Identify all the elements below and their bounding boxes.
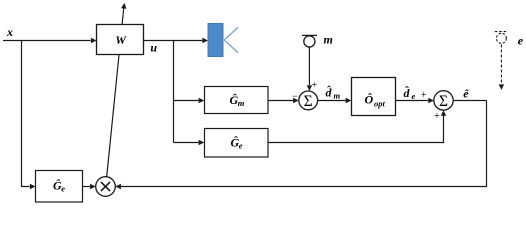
- svg-text:+: +: [434, 111, 440, 122]
- svg-text:e: e: [412, 91, 416, 101]
- loudspeaker (blue): [208, 24, 238, 57]
- svg-text:+: +: [311, 80, 317, 91]
- wire Gm output to sum1 (minus): [268, 91, 299, 103]
- optimal filter O_opt box: [352, 78, 396, 116]
- svg-text:u: u: [150, 41, 157, 55]
- multiplier circle: [96, 177, 116, 197]
- summing junction sum1: [299, 91, 318, 110]
- svg-text:Ô: Ô: [365, 93, 374, 107]
- lower Ge model box: [36, 171, 83, 203]
- svg-text:x: x: [6, 25, 13, 39]
- svg-text:ê: ê: [463, 87, 469, 101]
- wire microphone down into sum1 (plus): [307, 47, 318, 91]
- wire e-hat feedback down and left into multiplier: [115, 101, 486, 190]
- svg-text:Σ: Σ: [304, 93, 313, 110]
- svg-text:d̂: d̂: [404, 86, 411, 100]
- wire into Gm box: [174, 100, 199, 102]
- wire into middle Ge box: [174, 142, 199, 144]
- wire middle Ge output up into sum2 (plus): [268, 110, 446, 142]
- svg-text:m: m: [334, 91, 341, 101]
- svg-text:e: e: [61, 184, 65, 194]
- wire x branch down to lower Ge box: [22, 41, 30, 187]
- svg-text:opt: opt: [374, 99, 386, 109]
- svg-text:−: −: [292, 91, 298, 102]
- wire u branch down: [173, 41, 175, 143]
- wire u output from W to loudspeaker: [144, 38, 209, 43]
- filter W box: [97, 25, 144, 55]
- dashed error mic symbol e: [495, 32, 508, 44]
- svg-text:+: +: [421, 90, 427, 101]
- wire sum2 output e-hat, node e-hat label: [453, 87, 486, 101]
- secondary path model Gm box: [205, 87, 269, 114]
- wire O_opt output to sum2, node d_e label, plus: [396, 86, 434, 104]
- wire x input into W: [3, 38, 97, 43]
- svg-text:d̂: d̂: [326, 85, 333, 99]
- svg-text:Σ: Σ: [439, 93, 448, 110]
- wire sum1 output, node d_m label: [318, 85, 352, 103]
- svg-text:W: W: [115, 33, 127, 47]
- microphone symbol m: [302, 35, 317, 47]
- wire LMS-update diagonal from multiplier to top arrow (behind W box): [107, 3, 127, 177]
- svg-text:e: e: [239, 140, 243, 150]
- svg-text:m: m: [324, 33, 333, 47]
- summing junction sum2: [434, 91, 453, 110]
- middle Ge model box: [205, 129, 269, 158]
- wire lower Ge output into multiplier: [83, 184, 96, 189]
- dashed wire down from e with arrow: [499, 45, 504, 91]
- svg-text:e: e: [518, 33, 524, 47]
- svg-text:m: m: [238, 98, 245, 108]
